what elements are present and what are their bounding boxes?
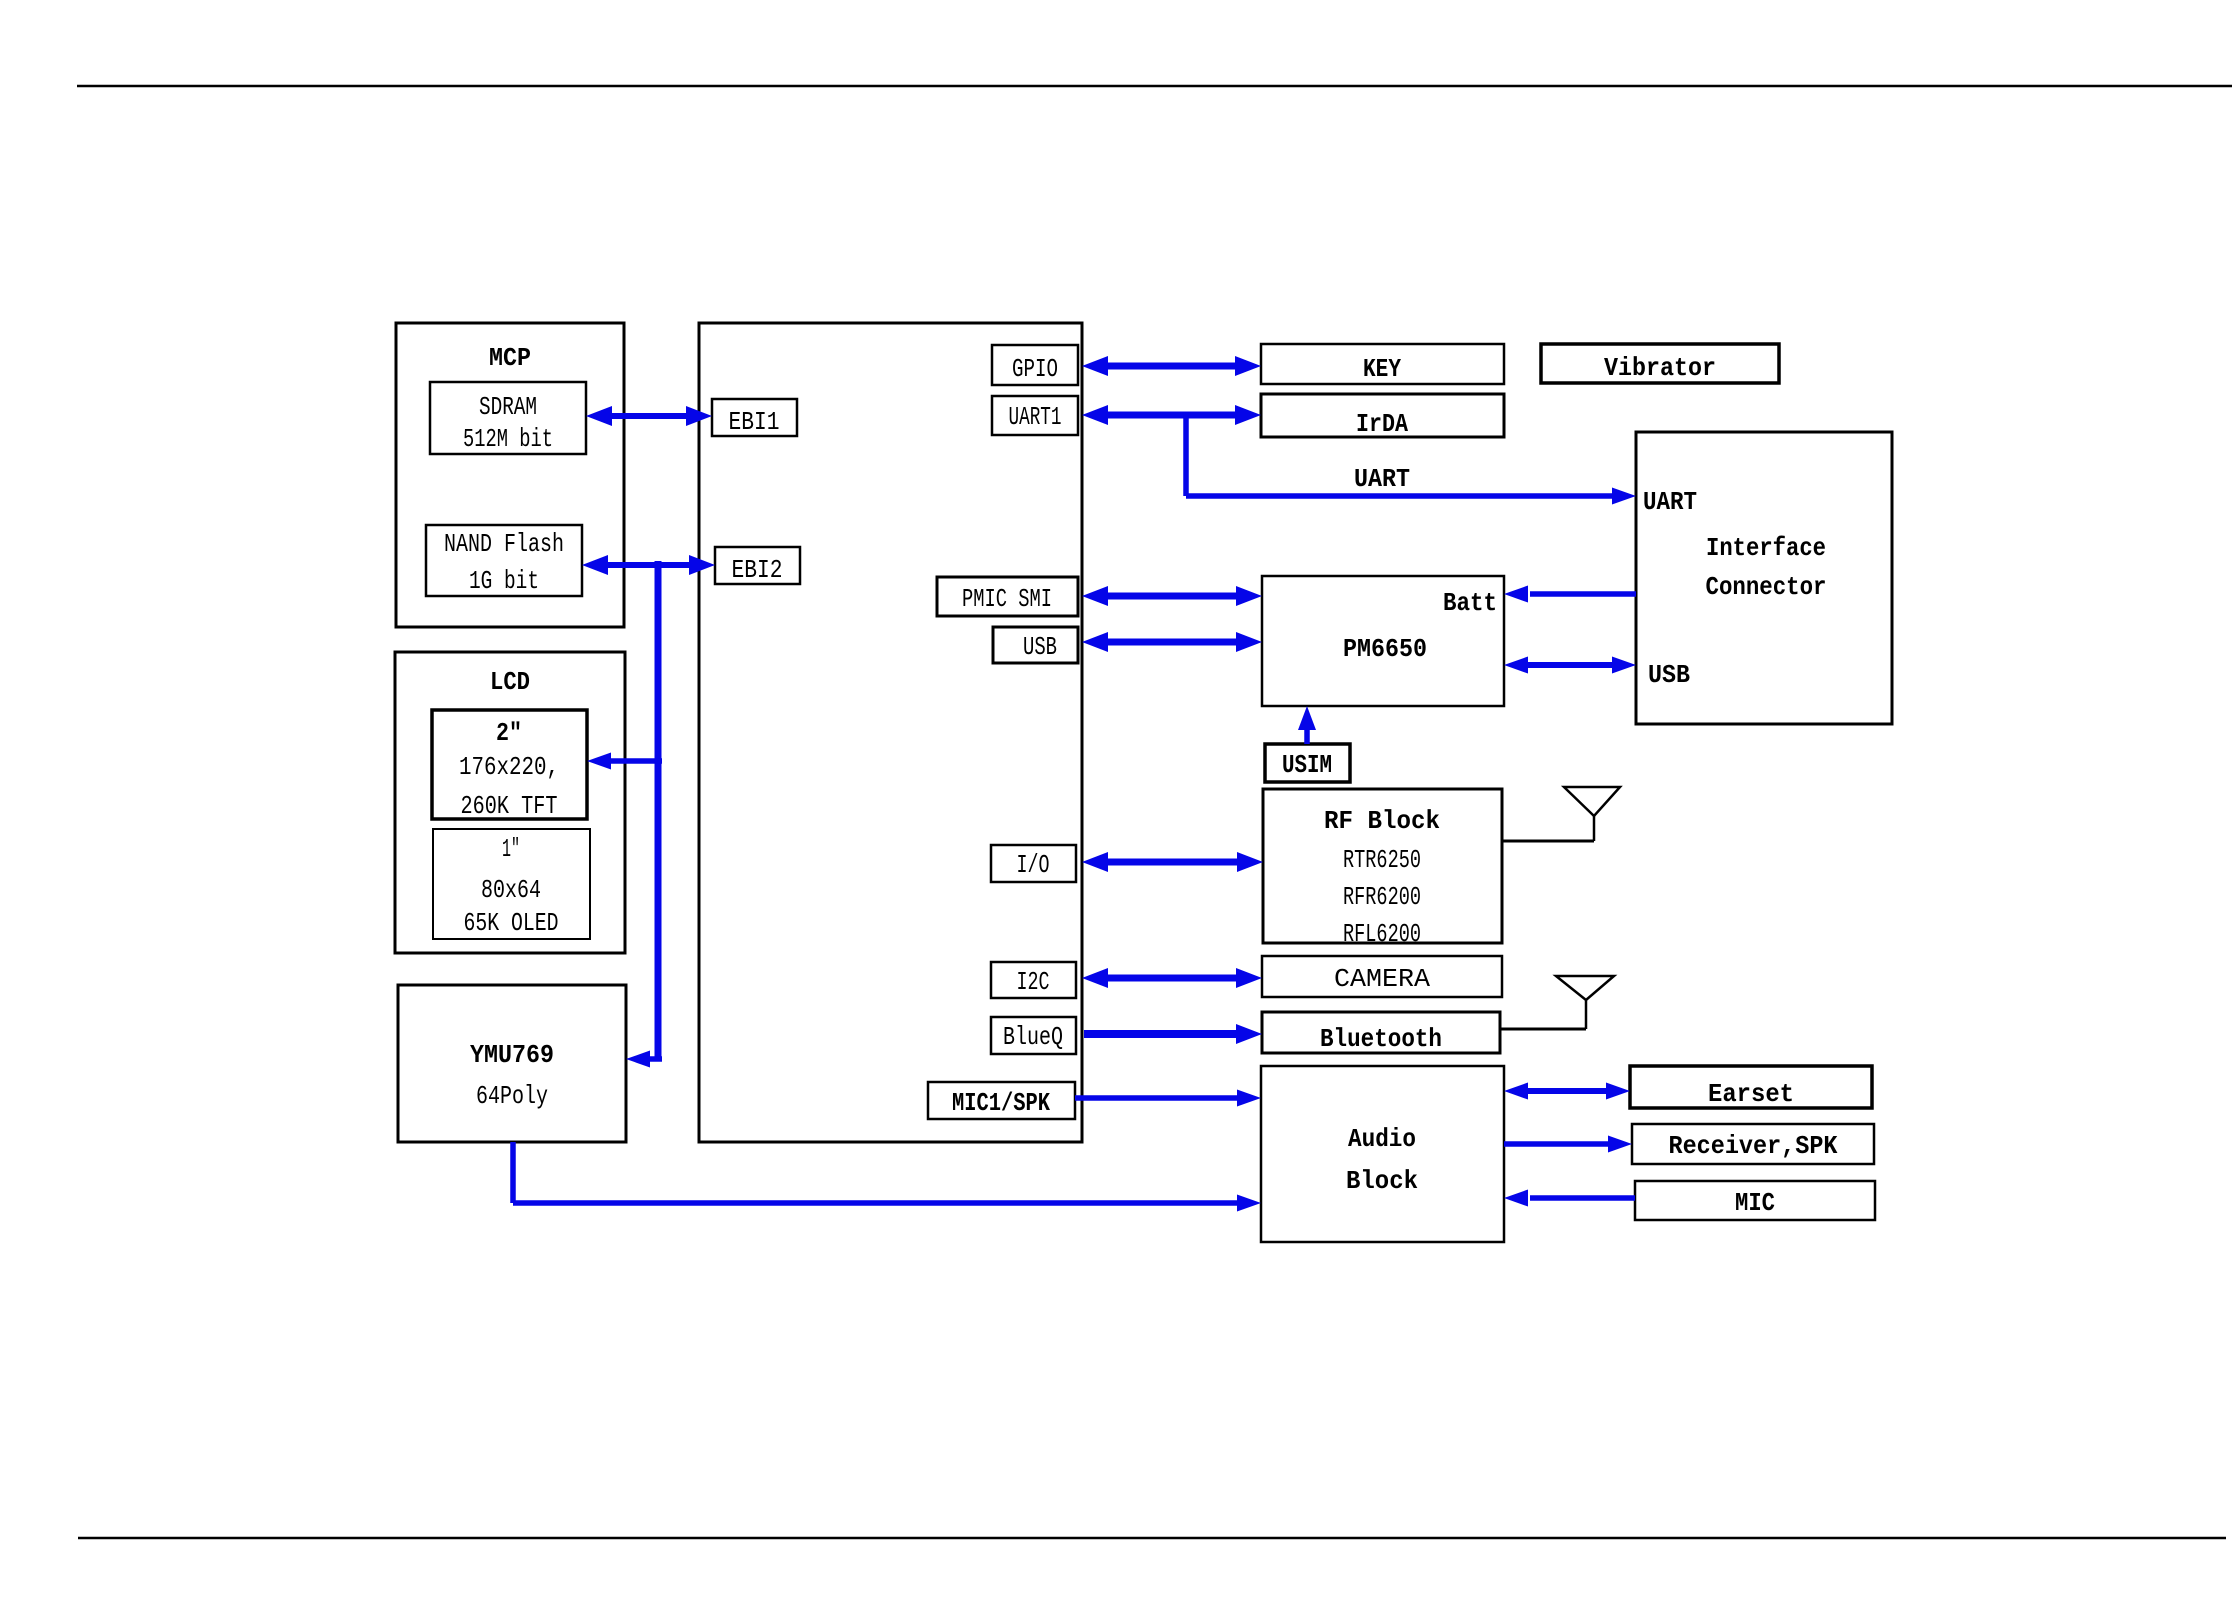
wire EBI2 trunk vertical xyxy=(655,561,662,1059)
wire YMU769 down xyxy=(510,1142,516,1203)
wire Audio Block-Earset xyxy=(1504,1083,1630,1100)
svg-text:1G bit: 1G bit xyxy=(469,566,539,596)
svg-text:64Poly: 64Poly xyxy=(476,1081,548,1111)
page bottom rule xyxy=(78,1537,2226,1540)
label UART wire xyxy=(1354,464,1410,494)
svg-text:UART: UART xyxy=(1643,487,1697,517)
wire MIC-Audio Block xyxy=(1504,1190,1635,1207)
block KEY xyxy=(1261,344,1504,384)
wire Interface Connector-Batt xyxy=(1504,586,1636,603)
svg-text:RF Block: RF Block xyxy=(1324,806,1440,836)
antenna RF xyxy=(1502,787,1620,841)
wire USB-PM6650 xyxy=(1082,632,1262,652)
label LCD 2in xyxy=(459,718,559,821)
svg-text:512M bit: 512M bit xyxy=(463,424,553,454)
wire PMIC SMI-PM6650 xyxy=(1082,586,1262,606)
svg-text:IrDA: IrDA xyxy=(1356,409,1408,439)
wire MIC1/SPK-Audio Block xyxy=(1075,1090,1261,1107)
block MCP xyxy=(396,323,624,627)
label LCD xyxy=(490,667,530,697)
wire NAND-EBI2 xyxy=(582,555,715,575)
svg-text:USB: USB xyxy=(1023,632,1057,662)
svg-text:Receiver,SPK: Receiver,SPK xyxy=(1669,1131,1838,1161)
label NAND Flash xyxy=(444,529,564,596)
svg-text:I2C: I2C xyxy=(1017,967,1050,997)
wire BlueQ-Bluetooth xyxy=(1084,1024,1262,1044)
svg-text:EBI2: EBI2 xyxy=(732,555,783,585)
block Receiver,SPK xyxy=(1632,1124,1874,1164)
port USB xyxy=(993,627,1078,663)
svg-text:Connector: Connector xyxy=(1706,572,1827,602)
block Earset xyxy=(1630,1066,1872,1109)
port BlueQ xyxy=(991,1017,1076,1054)
label LCD 1in xyxy=(464,834,559,938)
wire GPIO-KEY xyxy=(1082,356,1261,376)
svg-text:Vibrator: Vibrator xyxy=(1604,353,1716,383)
svg-text:Batt: Batt xyxy=(1443,588,1497,618)
port I2C xyxy=(991,962,1076,998)
svg-text:SDRAM: SDRAM xyxy=(479,392,537,422)
block YMU769 xyxy=(398,985,626,1142)
page top rule xyxy=(77,85,2232,88)
block PM6650 xyxy=(1262,576,1504,706)
svg-text:MIC1/SPK: MIC1/SPK xyxy=(952,1088,1050,1118)
svg-text:PM6650: PM6650 xyxy=(1343,634,1427,664)
svg-text:Earset: Earset xyxy=(1708,1079,1794,1109)
wire USIM-PM6650 xyxy=(1298,706,1316,744)
svg-text:GPIO: GPIO xyxy=(1012,354,1058,384)
block Audio Block xyxy=(1261,1066,1504,1242)
label Interface Connector UART pin xyxy=(1643,487,1697,517)
block MIC xyxy=(1635,1181,1875,1220)
label Batt pin xyxy=(1443,588,1497,618)
svg-text:176x220,: 176x220, xyxy=(459,752,559,782)
wire SDRAM-EBI1 xyxy=(586,406,712,426)
svg-text:YMU769: YMU769 xyxy=(470,1040,554,1070)
block Vibrator xyxy=(1541,344,1779,383)
port I/O xyxy=(991,845,1076,882)
label RF Block xyxy=(1324,806,1440,949)
svg-text:EBI1: EBI1 xyxy=(729,407,780,437)
block LCD 2in xyxy=(432,710,587,819)
svg-text:CAMERA: CAMERA xyxy=(1334,964,1430,994)
port GPIO xyxy=(992,345,1078,385)
label Interface Connector USB pin xyxy=(1648,660,1690,690)
wire UART1-IrDA xyxy=(1082,405,1261,425)
svg-text:MIC: MIC xyxy=(1735,1188,1775,1218)
svg-text:PMIC SMI: PMIC SMI xyxy=(962,584,1052,614)
block USIM xyxy=(1265,744,1350,782)
svg-text:1": 1" xyxy=(502,834,520,864)
svg-text:80x64: 80x64 xyxy=(481,875,541,905)
svg-text:2": 2" xyxy=(496,718,522,748)
port UART1 xyxy=(992,396,1078,435)
label Interface Connector xyxy=(1706,533,1827,602)
block Interface Connector xyxy=(1636,432,1892,724)
svg-text:Interface: Interface xyxy=(1706,533,1826,563)
svg-text:Block: Block xyxy=(1346,1166,1418,1196)
block LCD 1in xyxy=(433,829,590,939)
svg-text:260K TFT: 260K TFT xyxy=(461,791,558,821)
port PMIC SMI xyxy=(937,577,1078,616)
block SDRAM xyxy=(430,382,586,454)
svg-text:LCD: LCD xyxy=(490,667,530,697)
wire I2C-CAMERA xyxy=(1082,968,1262,988)
wire UART to Interface Connector xyxy=(1186,488,1636,505)
port EBI1 xyxy=(712,399,797,437)
block NAND Flash xyxy=(426,525,582,596)
svg-text:Bluetooth: Bluetooth xyxy=(1320,1024,1442,1054)
antenna Bluetooth xyxy=(1500,976,1614,1029)
svg-text:65K OLED: 65K OLED xyxy=(464,908,559,938)
svg-text:RFL6200: RFL6200 xyxy=(1343,919,1421,949)
svg-text:USB: USB xyxy=(1648,660,1690,690)
wire trunk to YMU769 xyxy=(626,1051,662,1068)
block RF Block xyxy=(1263,789,1502,943)
block IrDA xyxy=(1261,394,1504,439)
svg-text:RTR6250: RTR6250 xyxy=(1343,845,1421,875)
port EBI2 xyxy=(715,547,800,585)
label Audio Block xyxy=(1346,1124,1418,1196)
block Bluetooth xyxy=(1262,1012,1500,1054)
wire trunk to LCD xyxy=(587,753,662,770)
label YMU769 xyxy=(470,1040,554,1111)
block LCD xyxy=(395,652,625,953)
svg-text:I/O: I/O xyxy=(1017,850,1050,880)
label SDRAM xyxy=(463,392,553,454)
label PM6650 xyxy=(1343,634,1427,664)
wire I/O-RF Block xyxy=(1082,852,1263,872)
wire PM6650-USB Interface xyxy=(1504,657,1636,674)
svg-text:BlueQ: BlueQ xyxy=(1003,1022,1063,1052)
svg-text:UART1: UART1 xyxy=(1009,402,1062,432)
svg-text:UART: UART xyxy=(1354,464,1410,494)
svg-text:Audio: Audio xyxy=(1348,1124,1416,1154)
block CAMERA xyxy=(1262,956,1502,997)
svg-text:MCP: MCP xyxy=(489,343,531,373)
wire YMU769-Audio Block xyxy=(513,1195,1261,1212)
svg-text:RFR6200: RFR6200 xyxy=(1343,882,1421,912)
block main chip xyxy=(699,323,1082,1142)
wire Audio Block-Receiver,SPK xyxy=(1504,1136,1632,1153)
label MCP xyxy=(489,343,531,373)
wire UART branch vertical xyxy=(1183,415,1189,496)
svg-text:KEY: KEY xyxy=(1363,354,1401,384)
svg-text:NAND Flash: NAND Flash xyxy=(444,529,564,559)
port MIC1/SPK xyxy=(928,1082,1075,1119)
svg-text:USIM: USIM xyxy=(1282,750,1332,780)
